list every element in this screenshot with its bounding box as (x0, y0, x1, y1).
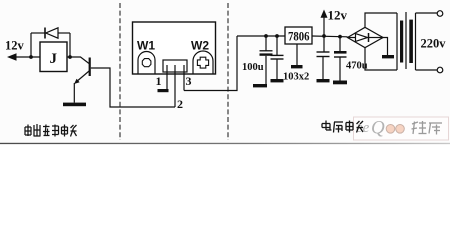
bridge rectifier (348, 27, 384, 47)
svg-text:3: 3 (186, 74, 192, 88)
svg-text:J: J (50, 51, 58, 67)
capacitor C4 470u (334, 37, 347, 81)
receiver module box (133, 22, 216, 74)
node C1 junction (264, 34, 268, 38)
transformer T1 (397, 12, 416, 70)
connector header (163, 60, 187, 72)
svg-text:1: 1 (156, 74, 162, 88)
wire secondary bottom to terminal (416, 69, 438, 71)
wire bridge AC bottom (365, 48, 397, 70)
wire secondary top to terminal (416, 12, 438, 14)
ground (pin 1) (158, 89, 169, 92)
capacitor C3 103 (317, 36, 330, 79)
capacitor C1 100u (260, 36, 273, 84)
ground (C3) (317, 79, 330, 82)
ground (7806) (291, 65, 303, 68)
ground (C2) (271, 79, 284, 82)
wire bridge AC top (365, 13, 397, 27)
bottom scan line (0, 143, 450, 144)
terminal circle top (437, 11, 443, 17)
transistor Q1 (74, 58, 90, 85)
pin 1 (166, 65, 168, 89)
12V rail (312, 35, 348, 38)
watermark text eeQoo (356, 118, 404, 139)
wire pin 3 to 6V rail (184, 36, 237, 91)
ground (emitter) (63, 103, 86, 107)
pin 3 (183, 65, 185, 91)
wire bridge negative (383, 38, 388, 56)
svg-text:103x2: 103x2 (283, 72, 309, 83)
svg-text:W1: W1 (137, 39, 155, 53)
capacitor C2 103 (271, 36, 284, 79)
ground (C4) (333, 81, 347, 85)
terminal arrow 12V up (321, 10, 328, 37)
pin 2 (174, 65, 176, 107)
section divider dashed (left) (119, 3, 121, 140)
6V rail (237, 35, 285, 37)
wire emitter to ground (73, 83, 75, 103)
terminal arrow 12V left (7, 53, 40, 60)
svg-text:W2: W2 (191, 39, 209, 53)
svg-text:12v: 12v (5, 39, 25, 53)
node C3 junction (322, 34, 326, 38)
svg-text:12v: 12v (328, 8, 348, 23)
watermark 维库 glyphs (412, 121, 443, 135)
potentiometer W2 (193, 51, 213, 74)
svg-text:7806: 7806 (288, 30, 310, 44)
svg-text:2: 2 (177, 97, 183, 111)
section divider dashed (right) (227, 3, 229, 140)
relay J (40, 42, 67, 72)
watermark box (354, 117, 449, 140)
wire relay to collector (67, 57, 89, 64)
wire 7806 ground pin (296, 44, 298, 65)
svg-text:100u: 100u (242, 62, 264, 73)
node C4 junction (338, 35, 342, 39)
label 电源部分 (fake glyph strokes) (322, 121, 363, 133)
node A: relay left junction (29, 55, 33, 59)
svg-text:Q: Q (371, 118, 385, 139)
wire base to receiver pin 2 (91, 68, 175, 107)
terminal circle bottom (437, 67, 443, 73)
node B: relay right junction (68, 55, 72, 59)
flyback diode D1 (31, 28, 70, 58)
svg-text:220v: 220v (421, 37, 447, 51)
potentiometer W1 (138, 52, 155, 75)
node C2 junction (275, 34, 279, 38)
regulator U2 7806 (285, 27, 312, 44)
ground (C1) (253, 84, 267, 87)
label 输出控制部分 (fake glyph strokes) (25, 124, 77, 137)
ground (bridge) (382, 55, 394, 58)
